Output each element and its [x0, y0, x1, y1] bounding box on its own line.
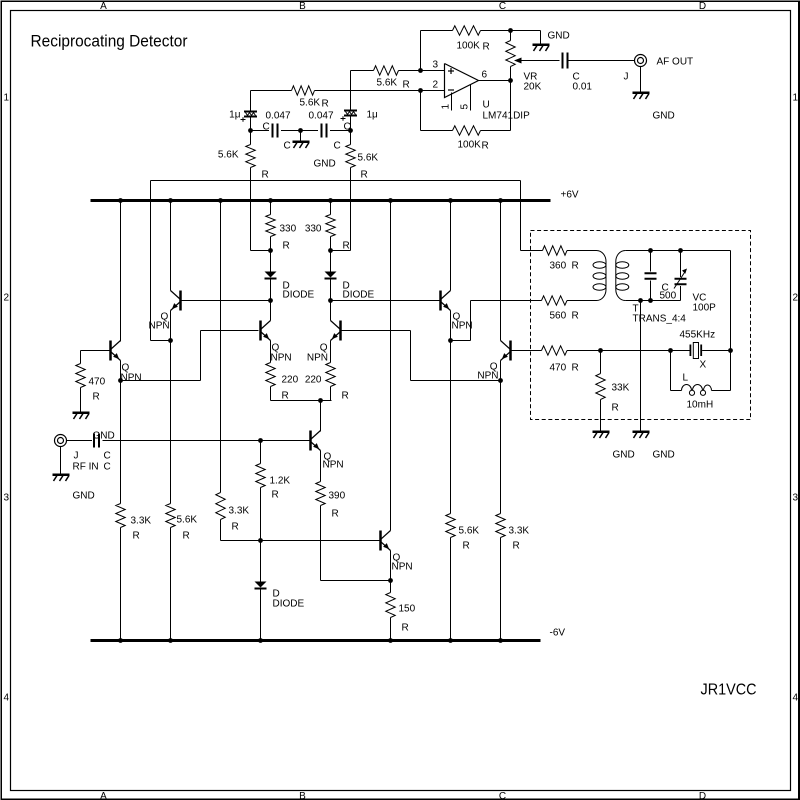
junction -6V bus x=260 — [258, 638, 263, 643]
svg-text:+6V: +6V — [561, 190, 579, 201]
svg-text:360: 360 — [550, 261, 567, 272]
junction -6V bus x=450 — [448, 638, 453, 643]
wire y=180 right drop — [520, 181, 522, 201]
junction C500 bottom — [648, 298, 653, 303]
svg-text:455KHz: 455KHz — [680, 330, 716, 341]
svg-text:GND: GND — [548, 31, 570, 42]
svg-text:3: 3 — [433, 60, 439, 71]
svg-text:5.6K: 5.6K — [459, 526, 480, 537]
junction +6V bus x=170 — [168, 198, 173, 203]
svg-text:6: 6 — [482, 70, 488, 81]
ground (RF IN) — [53, 474, 70, 477]
wire x=120 to 3.3K — [120, 381, 122, 504]
junction node pin6 — [508, 78, 513, 83]
junction x=270 y=250 — [268, 248, 273, 253]
svg-text:R: R — [133, 531, 140, 542]
svg-text:NPN: NPN — [121, 373, 142, 384]
resistor R 150 — [390, 581, 392, 593]
svg-text:J: J — [624, 72, 629, 83]
svg-text:GND: GND — [93, 431, 115, 442]
resistor R 3.3K (x=220) — [216, 493, 225, 520]
resistor R 5.6K (x=450) — [446, 514, 455, 538]
svg-text:100K: 100K — [458, 140, 482, 151]
svg-text:NPN: NPN — [477, 371, 498, 382]
svg-text:DIODE: DIODE — [283, 290, 315, 301]
svg-text:NPN: NPN — [323, 460, 344, 471]
wire 3.3K x=500 to -6V — [500, 538, 502, 641]
wire 220 left to tail — [270, 387, 272, 401]
svg-text:3: 3 — [4, 493, 10, 504]
wire tank right drop — [730, 251, 732, 351]
transistor Q NPN (bottom bias) — [379, 531, 382, 551]
wire 470 to ground — [80, 388, 82, 412]
wire buffer1 emitter — [450, 311, 452, 341]
wire diff right base — [342, 330, 411, 332]
wire bottom diode to -6V — [260, 590, 262, 641]
wire x=250 to jog — [250, 168, 252, 251]
junction x=330 y=300 — [328, 298, 333, 303]
wire inductor to tank — [712, 390, 731, 392]
svg-text:C: C — [344, 122, 351, 133]
wire Q2 emitter — [170, 311, 172, 341]
wire feedback top left — [420, 31, 422, 71]
svg-text:330: 330 — [305, 224, 322, 235]
svg-text:LM741DIP: LM741DIP — [483, 111, 531, 122]
wire 220 right to tail — [330, 387, 332, 401]
wire cap to AF OUT jack — [569, 60, 635, 62]
svg-text:R: R — [403, 80, 410, 91]
svg-text:5.6K: 5.6K — [177, 515, 198, 526]
junction +6V bus x=500 — [498, 198, 503, 203]
junction x=390 y=580 — [388, 578, 393, 583]
wire jack to ground — [640, 67, 642, 92]
op-amp pin 5 stub — [470, 85, 472, 111]
svg-text:DIODE: DIODE — [273, 599, 305, 610]
svg-text:5.6K: 5.6K — [300, 98, 321, 109]
transformer T TRANS_4:4 — [597, 251, 607, 262]
wire cap2 to node x=350 — [330, 130, 351, 132]
svg-text:R: R — [463, 541, 470, 552]
svg-text:500: 500 — [660, 291, 677, 302]
svg-text:C: C — [499, 791, 506, 800]
wire crystal left drop — [670, 351, 672, 391]
wire 3.3K to -6V — [120, 528, 122, 641]
svg-text:R: R — [572, 363, 579, 374]
svg-text:C: C — [499, 1, 506, 12]
resistor R 220 (left) — [266, 363, 275, 387]
capacitor C 0.047 (right) — [321, 124, 323, 138]
svg-text:330: 330 — [280, 224, 297, 235]
wire op-amp -input y=90 — [421, 90, 445, 92]
svg-text:R: R — [283, 241, 290, 252]
junction 33K top — [598, 348, 603, 353]
wire 3.3K x=220 bottom — [220, 520, 222, 541]
wire diode anode left — [270, 251, 272, 272]
wire 1u left to node — [250, 118, 252, 131]
svg-text:100K: 100K — [457, 41, 481, 52]
wire emitter to x=200 — [121, 380, 201, 382]
svg-text:R: R — [332, 509, 339, 520]
transistor Q NPN (buffer 1) — [439, 291, 442, 311]
wire x=170 to 5.6K — [170, 341, 172, 504]
wire Q1 emitter — [120, 361, 122, 381]
junction VC top — [678, 248, 683, 253]
wire 470 row to 33K node — [567, 350, 601, 352]
wire x=200 riser — [200, 331, 202, 381]
ground (470) — [73, 412, 90, 415]
crystal X 455KHz — [671, 350, 691, 352]
junction -6V bus x=500 — [498, 638, 503, 643]
svg-text:Reciprocating Detector: Reciprocating Detector — [31, 32, 188, 51]
dashed module box — [531, 231, 751, 420]
svg-text:2: 2 — [433, 80, 439, 91]
resistor R 1.2K — [260, 441, 262, 464]
ground (33K) — [593, 431, 610, 434]
wire x=150 drop — [150, 201, 152, 341]
inductor L 10mH — [682, 385, 692, 391]
svg-text:1: 1 — [4, 93, 10, 104]
svg-text:C: C — [104, 451, 111, 462]
capacitor C 0.047 (left) — [272, 124, 274, 138]
wire buffer1 collector — [450, 201, 452, 291]
resistor R 5.6K (y=90) — [292, 86, 315, 95]
svg-text:U: U — [483, 100, 490, 111]
wire transformer to ground — [640, 301, 642, 431]
capacitor C 0.01 — [562, 53, 564, 69]
svg-text:A: A — [100, 1, 107, 12]
svg-text:R: R — [483, 42, 490, 53]
wire feedback bottom — [420, 91, 422, 131]
svg-text:100P: 100P — [693, 303, 717, 314]
wire x=220 column — [220, 201, 222, 493]
wire diode cathode right — [330, 280, 332, 301]
junction +6V bus x=330 — [328, 198, 333, 203]
transistor Q NPN (diff left) — [259, 321, 262, 341]
wire to top GND — [511, 30, 541, 32]
wire feedback top right — [481, 30, 511, 32]
junction node x=250 y=130 — [248, 128, 253, 133]
capacitor C 1u (right) — [344, 110, 357, 112]
capacitor C 500 — [650, 251, 652, 272]
svg-text:GND: GND — [653, 450, 675, 461]
junction +6V bus x=450 — [448, 198, 453, 203]
svg-text:NPN: NPN — [149, 321, 170, 332]
wire RF jack to ground — [60, 447, 62, 474]
svg-text:NPN: NPN — [307, 353, 328, 364]
wire diode bottom anode — [260, 541, 262, 582]
junction +6V bus x=120 — [118, 198, 123, 203]
wire bias rail y=540 — [221, 540, 380, 542]
svg-text:0.047: 0.047 — [309, 111, 334, 122]
svg-text:A: A — [100, 791, 107, 800]
svg-text:GND: GND — [73, 491, 95, 502]
svg-text:4: 4 — [793, 693, 799, 704]
wire bottom Q emitter — [390, 551, 392, 581]
resistor R 3.3K (x=500) — [496, 514, 505, 538]
svg-text:1: 1 — [441, 104, 452, 110]
svg-text:D: D — [699, 1, 706, 12]
wire y=330 to diff base — [201, 330, 259, 332]
svg-text:R: R — [322, 99, 329, 110]
svg-text:0.01: 0.01 — [573, 82, 593, 93]
junction crystal left — [668, 348, 673, 353]
svg-text:C: C — [284, 141, 291, 152]
svg-text:10mH: 10mH — [687, 400, 714, 411]
wire diff right emitter — [330, 341, 332, 363]
op-amp pin 1 stub — [451, 93, 453, 111]
wire x=390 collector column — [390, 201, 392, 531]
junction x=450 y=340 — [448, 338, 453, 343]
+6V bus — [91, 199, 551, 202]
ground (mid filter) — [293, 141, 310, 144]
diode D DIODE (right) — [325, 272, 337, 278]
wire x=350 top — [350, 71, 352, 110]
wire x=330 to Q collector — [330, 301, 332, 321]
junction VR top — [508, 28, 513, 33]
wire buffer2 collector — [500, 201, 502, 341]
junction -6V bus x=170 — [168, 638, 173, 643]
wire secondary bottom — [625, 300, 680, 302]
wire 390 to corner — [320, 506, 322, 581]
svg-text:470: 470 — [550, 363, 567, 374]
variable capacitor VC 100P — [680, 251, 682, 278]
capacitor C (RF input) — [93, 434, 95, 448]
wire x=500 to 3.3K — [500, 381, 502, 514]
svg-text:150: 150 — [399, 604, 416, 615]
wire 560 to primary — [567, 300, 597, 302]
svg-text:2: 2 — [4, 293, 10, 304]
resistor R 5.6K (y=70) — [374, 66, 399, 75]
wire y=380 link — [410, 331, 412, 381]
svg-text:20K: 20K — [524, 82, 542, 93]
svg-text:L: L — [683, 373, 689, 384]
junction node pin3 — [418, 68, 423, 73]
svg-text:GND: GND — [314, 159, 336, 170]
wire jack to cap — [67, 440, 93, 442]
junction tail node — [318, 398, 323, 403]
resistor R 330 (right) — [330, 201, 332, 215]
wire mid node to ground — [300, 131, 302, 141]
svg-text:R: R — [361, 170, 368, 181]
wire diode anode right — [330, 251, 332, 272]
resistor R 100K (bottom) — [453, 126, 481, 135]
wire x=520 drop to 360 — [520, 201, 522, 251]
junction node pin2 — [418, 88, 423, 93]
wire y=90 net left — [251, 90, 292, 92]
wire sink collector — [320, 401, 322, 432]
svg-text:J: J — [74, 451, 79, 462]
wire 360 to primary — [567, 250, 597, 252]
ground (AF OUT) — [633, 92, 650, 95]
resistor R 5.6K (x=250 vertical) — [250, 131, 252, 145]
wire x=120 collector — [120, 201, 122, 341]
wire buffer2 base to 470 row — [512, 350, 542, 352]
op-amp U LM741DIP — [445, 64, 479, 98]
svg-text:R: R — [612, 403, 619, 414]
svg-text:R: R — [482, 141, 489, 152]
svg-text:220: 220 — [282, 375, 299, 386]
svg-text:X: X — [700, 360, 707, 371]
wire sink emitter — [320, 451, 322, 482]
svg-text:JR1VCC: JR1VCC — [701, 682, 757, 699]
junction x=330 y=250 — [328, 248, 333, 253]
resistor R 390 — [316, 482, 325, 506]
svg-text:B: B — [299, 791, 306, 800]
wire y=70 net — [351, 70, 374, 72]
wire Q1 collector diag joins — [120, 341, 122, 342]
wire op-amp output — [479, 80, 511, 82]
resistor R 330 (left) — [270, 201, 272, 215]
wire feedback bottom right — [481, 130, 511, 132]
svg-text:DIODE: DIODE — [343, 290, 375, 301]
wire 33K node to crystal — [601, 350, 671, 352]
connector J AF OUT — [635, 55, 647, 67]
wire node to cap1 — [251, 130, 270, 132]
ground (transformer) — [633, 431, 650, 434]
wire secondary top — [625, 250, 730, 252]
svg-text:NPN: NPN — [271, 353, 292, 364]
junction x=170 y=340 — [168, 338, 173, 343]
junction +6V bus x=270 — [268, 198, 273, 203]
junction crystal right — [728, 348, 733, 353]
svg-text:220: 220 — [305, 375, 322, 386]
svg-text:R: R — [262, 170, 269, 181]
junction -6V bus x=390 — [388, 638, 393, 643]
svg-text:R: R — [402, 623, 409, 634]
svg-text:R: R — [513, 541, 520, 552]
svg-text:R: R — [272, 490, 279, 501]
wire x=350 to jog — [350, 168, 352, 251]
svg-text:R: R — [282, 391, 289, 402]
svg-text:5.6K: 5.6K — [218, 150, 239, 161]
wire 560 row — [531, 300, 542, 302]
-6V bus — [91, 639, 541, 642]
svg-text:5.6K: 5.6K — [377, 78, 398, 89]
transistor Q NPN (tail sink) — [309, 431, 312, 451]
wire cap1 to mid node — [281, 130, 301, 132]
wire mid node to cap2 — [301, 130, 319, 132]
svg-text:33K: 33K — [612, 383, 630, 394]
diode D DIODE (left) — [265, 272, 277, 278]
wire Q2 base to diode node — [182, 300, 271, 302]
junction mid node y=130 — [298, 128, 303, 133]
wire buffer2 emitter — [500, 361, 502, 381]
svg-text:4: 4 — [4, 693, 10, 704]
wire RF line y=440 — [103, 440, 310, 442]
svg-text:R: R — [572, 311, 579, 322]
svg-text:0.047: 0.047 — [266, 111, 291, 122]
junction -6V bus x=120 — [118, 638, 123, 643]
ground (top, near VR) — [533, 44, 550, 47]
svg-text:GND: GND — [613, 450, 635, 461]
wire op-amp +input y=70 — [421, 70, 445, 72]
svg-text:R: R — [183, 531, 190, 542]
resistor R 100K (top) — [453, 26, 481, 35]
svg-text:R: R — [343, 241, 350, 252]
resistor R 5.6K (x=170) — [166, 504, 175, 528]
junction Q1 emitter node — [118, 378, 123, 383]
wire x=250 top — [250, 91, 252, 111]
resistor R 220 (right) — [326, 363, 335, 387]
svg-text:B: B — [299, 1, 306, 12]
wire Q1 base — [81, 350, 111, 352]
junction x=500 y=380 — [498, 378, 503, 383]
junction C500 top — [648, 248, 653, 253]
wire diff left emitter — [270, 341, 272, 363]
svg-text:R: R — [232, 522, 239, 533]
svg-text:3.3K: 3.3K — [509, 526, 530, 537]
wire emitter rail y=180 — [151, 180, 521, 182]
svg-text:1.2K: 1.2K — [270, 476, 291, 487]
potentiometer VR 20K — [510, 31, 512, 41]
svg-text:RF IN: RF IN — [73, 462, 99, 473]
svg-text:AF OUT: AF OUT — [657, 57, 694, 68]
transistor Q NPN (diff right) — [339, 321, 342, 341]
connector J RF IN — [55, 435, 67, 447]
svg-text:R: R — [93, 392, 100, 403]
svg-text:-6V: -6V — [550, 628, 566, 639]
wire x=170 collector — [170, 201, 172, 291]
capacitor C 1u (left) — [244, 111, 257, 113]
svg-text:560: 560 — [550, 311, 567, 322]
svg-text:390: 390 — [329, 491, 346, 502]
svg-text:C: C — [104, 462, 111, 473]
wire x=270 to Q collector — [270, 301, 272, 321]
wire to 560 row — [451, 340, 471, 342]
svg-text:3: 3 — [793, 493, 799, 504]
svg-text:5.6K: 5.6K — [358, 153, 379, 164]
junction node x=350 y=130 — [348, 128, 353, 133]
wire 5.6K x=450 to -6V — [450, 538, 452, 641]
resistor R 470 (row) — [542, 346, 568, 355]
wire 5.6K to pin2 node — [315, 90, 421, 92]
transistor Q NPN (input follower) — [109, 341, 112, 361]
wire 5.6K to -6V — [170, 528, 172, 641]
resistor R 33K — [600, 351, 602, 374]
resistor R 3.3K (x=120) — [116, 504, 125, 528]
resistor R 470 — [76, 364, 85, 388]
svg-text:NPN: NPN — [392, 562, 413, 573]
junction +6V bus x=390 — [388, 198, 393, 203]
junction transformer gnd node — [638, 298, 643, 303]
svg-text:470: 470 — [89, 377, 106, 388]
junction RF node x=260 — [258, 438, 263, 443]
svg-text:NPN: NPN — [452, 321, 473, 332]
wire 5.6K to pin3 node — [399, 70, 421, 72]
svg-text:1μ: 1μ — [367, 110, 379, 121]
diode D DIODE (bottom) — [255, 582, 267, 588]
junction +6V bus x=220 — [218, 198, 223, 203]
svg-text:5: 5 — [460, 104, 471, 110]
wire y=300 to buffer base — [331, 300, 441, 302]
wire 1u right to node — [350, 117, 352, 131]
svg-text:2: 2 — [793, 293, 799, 304]
junction x=270 y=300 — [268, 298, 273, 303]
svg-text:R: R — [572, 261, 579, 272]
resistor R 560 — [542, 296, 568, 305]
transistor Q NPN (emitter follower 2) — [179, 291, 182, 311]
svg-text:GND: GND — [653, 111, 675, 122]
svg-text:3.3K: 3.3K — [131, 516, 152, 527]
wire VR wiper to cap — [522, 60, 560, 62]
svg-text:D: D — [699, 791, 706, 800]
svg-text:R: R — [342, 391, 349, 402]
svg-text:1μ: 1μ — [229, 110, 241, 121]
junction x=260 y=540 — [258, 538, 263, 543]
svg-text:C: C — [334, 141, 341, 152]
wire diode cathode left — [270, 280, 272, 301]
transistor Q NPN (buffer 2) — [509, 341, 512, 361]
